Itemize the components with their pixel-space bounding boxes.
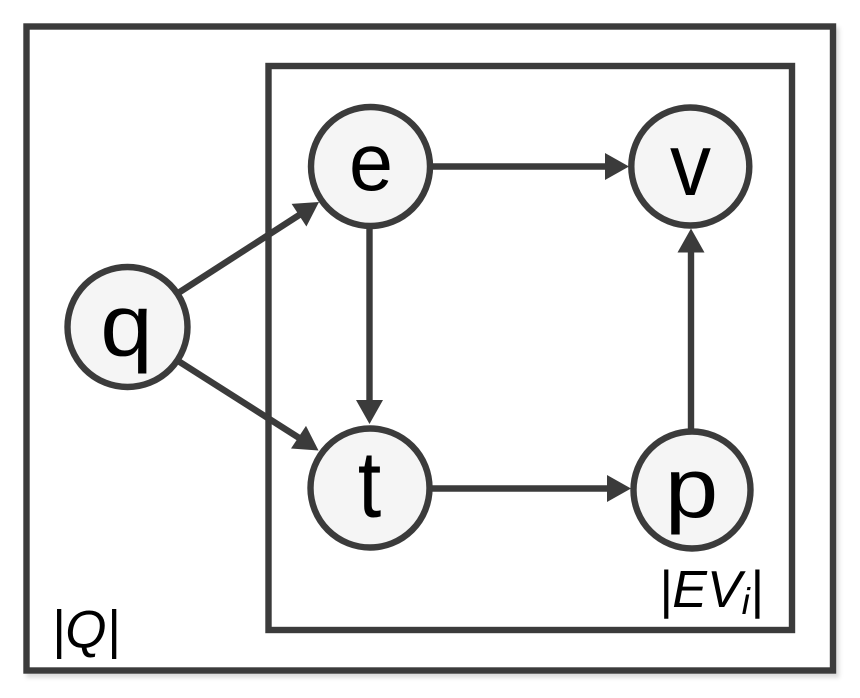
label |EV_i| [659, 561, 764, 622]
svg-text:v: v [670, 115, 711, 214]
plate EV_i (inner rectangle) [269, 66, 793, 630]
svg-text:e: e [349, 117, 393, 208]
arrow e->t [356, 227, 383, 425]
arrow q->e [179, 202, 319, 293]
svg-text:q: q [100, 278, 153, 375]
node p [634, 432, 751, 549]
svg-text:p: p [665, 441, 719, 535]
arrow t->p [430, 475, 631, 502]
svg-text:|Q|: |Q| [52, 601, 121, 660]
arrow e->v [431, 153, 630, 180]
node t [311, 429, 430, 548]
node q [68, 267, 188, 387]
node e [311, 107, 430, 226]
node v [631, 108, 749, 226]
arrow q->t [179, 362, 319, 451]
arrow p->v [678, 229, 705, 431]
label |Q| [52, 601, 121, 660]
svg-text:t: t [358, 432, 382, 538]
